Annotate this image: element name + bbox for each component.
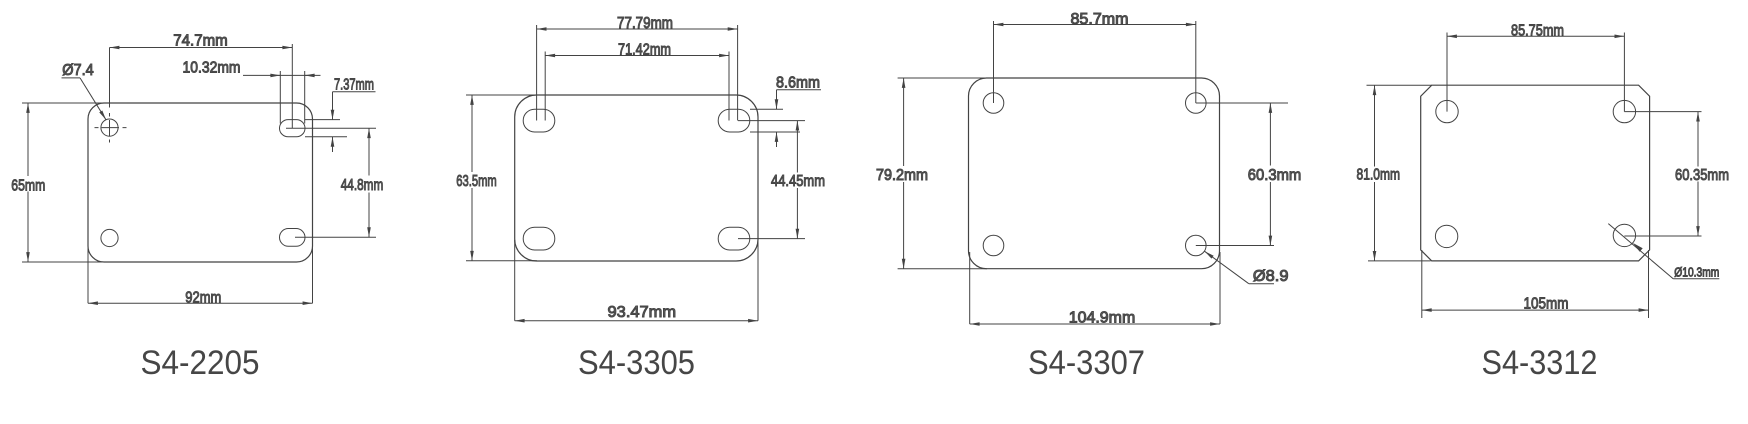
slot top-right [280, 120, 306, 137]
dim 85.75mm ext lines (into top holes) [1447, 33, 1624, 112]
label Ø8.9 leader arrow [1205, 251, 1249, 283]
svg-text:S4-3312: S4-3312 [1482, 344, 1598, 382]
hole bottom-right (Ø10.3) [1613, 224, 1635, 246]
svg-text:63.5mm: 63.5mm [456, 173, 497, 190]
dim 93.47mm ext lines [515, 240, 758, 321]
plate S4-3305 outline [515, 95, 758, 261]
plate S4-3307 outline [969, 78, 1220, 269]
svg-text:8.6mm: 8.6mm [776, 75, 820, 92]
svg-text:85.7mm: 85.7mm [1071, 11, 1129, 28]
svg-text:44.8mm: 44.8mm [341, 177, 384, 194]
label Ø10.3mm leader arrowhead [1633, 243, 1643, 252]
hole bottom-left [983, 235, 1004, 256]
svg-text:S4-3307: S4-3307 [1028, 344, 1145, 382]
slot bottom-right [718, 227, 750, 250]
dim 60.35mm line [1697, 112, 1699, 236]
svg-text:Ø10.3mm: Ø10.3mm [1674, 265, 1719, 280]
dim 71.42mm line [545, 55, 729, 57]
dim 85.7mm line [994, 24, 1196, 26]
dim 65mm ext lines (plate top/bottom edges extended left) [22, 103, 106, 262]
dim 8.6mm arrows [776, 90, 778, 110]
dim 65mm text mask [12, 176, 45, 192]
dim 63.5mm line [471, 95, 473, 261]
dim 60.3mm line [1269, 103, 1271, 246]
svg-text:77.79mm: 77.79mm [617, 15, 673, 32]
dim 79.2mm line [903, 78, 905, 269]
hole bottom-left [101, 229, 118, 246]
plate S4-2205 outline [88, 103, 313, 262]
dim 77.79mm line [537, 28, 738, 30]
svg-text:60.35mm: 60.35mm [1675, 167, 1729, 184]
dim 105mm line [1422, 309, 1649, 311]
dim 7.37mm arrows (outside, vertical) [332, 92, 334, 120]
svg-text:7.37mm: 7.37mm [334, 77, 374, 94]
hole top-right [1613, 100, 1635, 122]
dim 74.7mm line [110, 47, 293, 49]
hole top-left crosshair [95, 127, 129, 129]
svg-text:60.3mm: 60.3mm [1248, 167, 1302, 184]
svg-text:92mm: 92mm [185, 290, 221, 307]
dim 65mm line [27, 103, 29, 262]
dim 81.0mm line [1374, 85, 1376, 261]
svg-text:10.32mm: 10.32mm [183, 59, 241, 76]
dim 10.32mm line with outside arrows [243, 74, 321, 76]
svg-text:104.9mm: 104.9mm [1069, 310, 1136, 327]
dim 7.37mm ext lines (slot top/bottom edges extended) [305, 120, 347, 137]
dim 44.8mm text mask [340, 176, 384, 193]
dim 79.2mm ext lines [898, 78, 987, 269]
dim 81.0mm ext lines [1367, 85, 1432, 261]
dim 60.35mm ext lines (hole centers extended right) [1624, 112, 1701, 236]
dim 79.2mm text mask [874, 166, 931, 182]
dim 60.3mm text mask [1245, 166, 1304, 183]
dim 71.42mm ext lines [545, 52, 729, 121]
svg-text:93.47mm: 93.47mm [608, 304, 677, 321]
dim 60.3mm ext lines (hole centers extended right) [1196, 103, 1288, 246]
dim 44.45mm text mask [769, 173, 826, 189]
dim 104.9mm ext lines [970, 252, 1220, 324]
svg-text:79.2mm: 79.2mm [876, 167, 928, 184]
svg-text:71.42mm: 71.42mm [618, 42, 671, 59]
slot top-right [718, 109, 750, 132]
svg-text:44.45mm: 44.45mm [771, 173, 825, 190]
dim 44.8mm line [368, 128, 370, 237]
slot bottom-left [523, 227, 555, 250]
slot top-left [523, 109, 555, 132]
svg-text:81.0mm: 81.0mm [1357, 167, 1401, 184]
hole top-right [1186, 93, 1207, 114]
dim 104.9mm line [970, 323, 1220, 325]
svg-text:105mm: 105mm [1524, 296, 1569, 313]
dim 8.6mm shoulder underline [777, 89, 822, 91]
dim 85.7mm ext lines (into top holes) [994, 21, 1196, 103]
dim 93.47mm line [515, 320, 758, 322]
dim 92mm line [88, 302, 313, 304]
dim 44.45mm ext lines (slot centers extended right) [738, 121, 805, 239]
dim 60.35mm text mask [1672, 167, 1732, 182]
hole top-left [983, 93, 1004, 114]
label Ø8.9 underline [1249, 283, 1274, 285]
label Ø10.3mm underline [1673, 278, 1719, 280]
dim 81.0mm text mask [1354, 167, 1402, 183]
plate S4-3312 outline (chamfered corners) [1421, 85, 1650, 261]
label Ø7.4 leader arrow [80, 78, 106, 120]
dim 7.37mm shoulder underline [333, 91, 376, 93]
svg-text:Ø7.4: Ø7.4 [62, 62, 94, 79]
dim 44.45mm line [796, 121, 798, 239]
dim 63.5mm ext lines [466, 95, 537, 261]
svg-text:Ø8.9: Ø8.9 [1253, 268, 1289, 285]
dim 10.32mm extension lines [280, 71, 304, 124]
hole bottom-left [1435, 225, 1457, 247]
dim 8.6mm ext lines (slot edges extended) [750, 109, 800, 132]
slot bottom-right [280, 229, 306, 247]
dim 85.75mm line [1447, 35, 1624, 37]
svg-text:S4-2205: S4-2205 [141, 344, 260, 382]
svg-text:65mm: 65mm [11, 178, 45, 195]
dim 74.7mm extension line right (to slot center) [110, 44, 293, 128]
label Ø7.4 underline [62, 77, 81, 79]
dim 77.79mm ext lines (into top slots) [537, 25, 738, 121]
dim 63.5mm text mask [454, 172, 498, 188]
svg-text:S4-3305: S4-3305 [578, 344, 695, 382]
dim 44.8mm ext lines (slot centers extended right) [286, 128, 376, 237]
dim 105mm ext lines [1422, 250, 1649, 318]
svg-text:85.75mm: 85.75mm [1511, 22, 1564, 39]
dim 92mm ext lines [88, 245, 313, 303]
hole top-left [1436, 100, 1458, 122]
hole top-left (Ø7.4) [101, 119, 118, 136]
label Ø10.3mm leader (through hole) [1608, 224, 1673, 279]
hole bottom-right (Ø8.9) [1186, 235, 1207, 256]
svg-text:74.7mm: 74.7mm [173, 33, 228, 50]
